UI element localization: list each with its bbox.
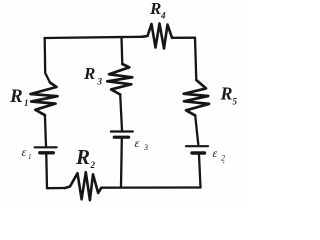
- resistor R4: [142, 24, 172, 49]
- label epsilon1: [22, 145, 32, 161]
- battery E1 long plate: [35, 146, 57, 148]
- svg-text:ε: ε: [22, 145, 27, 159]
- svg-text:ε: ε: [135, 136, 140, 150]
- wire right vertical lower: [199, 155, 201, 188]
- resistor R2: [65, 172, 101, 200]
- svg-text:R: R: [220, 84, 233, 104]
- wire middle vertical middle: [120, 95, 122, 131]
- label R3: [83, 64, 103, 87]
- wire middle vertical lower: [120, 139, 123, 188]
- wire middle vertical upper: [120, 37, 123, 64]
- wire left vertical middle: [45, 115, 46, 146]
- svg-text:2: 2: [90, 160, 96, 170]
- wire bottom-right horizontal: [101, 186, 200, 188]
- svg-text:3: 3: [143, 143, 148, 152]
- resistor R1: [31, 83, 58, 116]
- svg-text:ε: ε: [213, 146, 218, 160]
- svg-text:3: 3: [97, 77, 103, 87]
- wire top-left horizontal: [45, 37, 143, 38]
- svg-text:1: 1: [24, 98, 29, 108]
- battery E2 long plate: [186, 145, 208, 147]
- label R5: [220, 84, 238, 107]
- svg-text:4: 4: [160, 11, 166, 21]
- label R1: [9, 86, 29, 108]
- label epsilon3: [135, 136, 149, 152]
- wire right vertical upper: [195, 38, 196, 80]
- wire bottom-left horizontal: [47, 187, 65, 189]
- label epsilon2: [213, 146, 226, 163]
- svg-text:R: R: [149, 0, 161, 18]
- label R4: [149, 0, 166, 20]
- resistor R5: [184, 80, 209, 115]
- battery E3 short plate: [114, 136, 128, 139]
- svg-text:2: 2: [221, 154, 225, 163]
- wire left vertical upper: [45, 38, 50, 83]
- battery E2 short plate: [192, 151, 205, 154]
- svg-text:R: R: [75, 145, 90, 169]
- svg-text:1: 1: [28, 153, 32, 161]
- battery E1 short plate: [40, 151, 54, 154]
- wire right vertical middle: [195, 115, 198, 144]
- svg-text:R: R: [9, 86, 23, 107]
- label R2: [75, 145, 96, 170]
- svg-text:R: R: [83, 64, 95, 83]
- resistor R3: [107, 64, 132, 95]
- wire left vertical lower: [45, 155, 48, 189]
- wire top-right horizontal: [172, 37, 195, 39]
- battery E3 long plate: [111, 130, 133, 132]
- svg-text:5: 5: [233, 97, 238, 107]
